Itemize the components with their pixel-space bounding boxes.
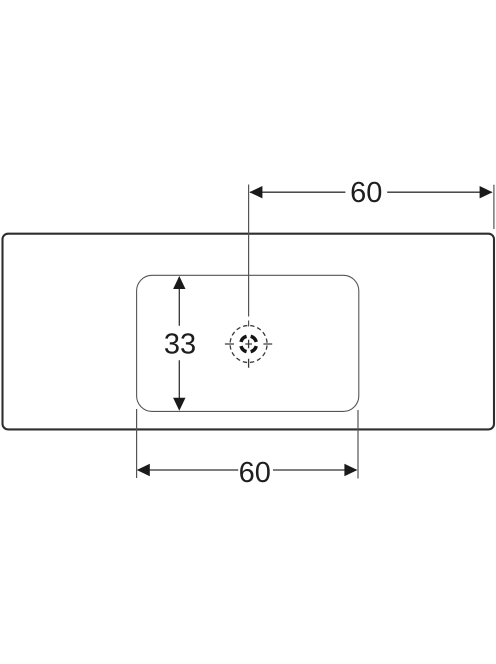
svg-text:33: 33 (164, 329, 196, 361)
svg-text:60: 60 (350, 177, 382, 209)
svg-text:60: 60 (239, 457, 271, 489)
